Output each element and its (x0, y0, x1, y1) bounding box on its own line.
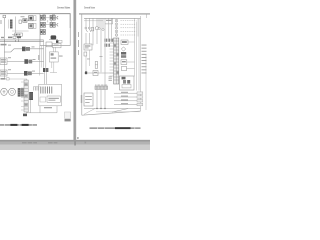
vertical wires (86, 18, 112, 86)
frame outer top line (79, 13, 150, 15)
wires below detail box left (40, 46, 42, 76)
small dark box (23, 114, 27, 117)
relay box H (84, 44, 92, 50)
rotated label (81, 95, 82, 103)
scroll gap band (0, 142, 150, 145)
right caption (90, 127, 141, 129)
resistor vertical (95, 62, 97, 69)
breaker pair r2c1 (40, 22, 42, 27)
row 4 label (1, 78, 6, 80)
breaker box pair (29, 16, 33, 21)
stubs left of strip (110, 40, 114, 76)
gauge circles (9, 88, 16, 95)
wires in detail box (46, 18, 57, 25)
wire (15, 17, 17, 33)
diagonal wire (112, 109, 128, 112)
breaker pair r1c1 (40, 15, 42, 20)
left caption (0, 124, 37, 126)
footer faint marks (22, 142, 86, 144)
stray mark (77, 137, 78, 139)
frame left (81, 14, 83, 115)
wires right of components (127, 18, 140, 90)
wire (24, 91, 28, 93)
verticals below connector (97, 90, 105, 109)
connector dark mid (43, 68, 46, 72)
detail box top-right (40, 14, 70, 46)
wire vertical into block (26, 79, 28, 80)
battery big box (39, 84, 62, 106)
bus box (105, 18, 113, 24)
terminal strip (114, 38, 119, 84)
motor oval (1, 88, 8, 95)
battery cells (41, 87, 52, 94)
svg-text:General Notes: General Notes (84, 6, 95, 10)
diamond (121, 47, 125, 51)
dashed rows (121, 21, 137, 35)
horizontal wire row (84, 72, 114, 74)
wire lower horizontal (96, 111, 141, 113)
breaker pair r3c1 (40, 30, 42, 35)
breaker pair r1c2 (50, 15, 52, 20)
dark stack (121, 52, 126, 55)
fuse cluster (105, 39, 113, 47)
relay box (23, 19, 27, 23)
margin text rows (142, 45, 147, 74)
component box mid (49, 52, 58, 62)
alternator box (120, 76, 135, 90)
relay dark blob bottom (51, 35, 57, 39)
pin number labels (109, 77, 112, 82)
c-contacts (57, 16, 58, 19)
harness row 3 (0, 70, 7, 76)
pin ladder strip (24, 80, 28, 112)
small box (46, 42, 52, 47)
wire long vertical (3, 18, 5, 79)
wire into mid box (50, 47, 57, 73)
switches (85, 27, 87, 29)
harness row 2 (0, 58, 7, 64)
svg-text:General Notes: General Notes (57, 6, 71, 10)
wires below relay (86, 50, 90, 73)
top bus (84, 17, 141, 19)
small box (84, 52, 87, 56)
edge stamp box (65, 112, 71, 118)
tiny labels sprinkle (1, 14, 56, 72)
stubs left of ladder (21, 82, 24, 110)
bus line lower (0, 41, 44, 43)
row tag boxes outside frame (137, 92, 143, 106)
battery text box (47, 96, 60, 102)
box below (53, 43, 62, 47)
breaker pair r2c2 (50, 22, 52, 27)
connector hatched strip (8, 20, 10, 29)
frame right (140, 16, 142, 111)
divider tail (74, 142, 75, 146)
small box lower (12, 30, 29, 32)
page bottom edge line (0, 139, 150, 142)
circles column (115, 19, 118, 36)
wire labels (100, 55, 103, 58)
frame bottom (82, 111, 141, 115)
vertical drops from bus (43, 40, 45, 68)
text marks (59, 56, 63, 57)
small box (19, 20, 22, 23)
comb ticks (34, 87, 39, 91)
harness row 1 (1, 44, 7, 46)
small box on row (93, 71, 98, 76)
lamp circle (95, 27, 98, 30)
label under box (44, 107, 52, 108)
wires from ladder (26, 100, 57, 113)
wire (27, 19, 29, 21)
dark dot box (56, 40, 58, 43)
wire rows bottom (114, 93, 141, 104)
next page sliver (0, 145, 150, 151)
node flag top-left (3, 15, 6, 18)
connector block dark (18, 88, 21, 97)
outer right line (145, 55, 147, 110)
solenoid hatched block (29, 92, 33, 100)
gutter divider between the two scanned pages (73, 0, 76, 141)
bottom bus (84, 108, 141, 110)
row labels mid (121, 92, 128, 104)
frame top line (0, 14, 70, 28)
page background (0, 0, 150, 150)
battery box right page (84, 93, 93, 106)
bus line upper (0, 39, 44, 41)
label marks above bus (1, 37, 4, 38)
dark nub (85, 71, 87, 74)
margin vertical text (78, 32, 79, 55)
components right of strip (121, 40, 128, 44)
wide connector (96, 84, 107, 86)
